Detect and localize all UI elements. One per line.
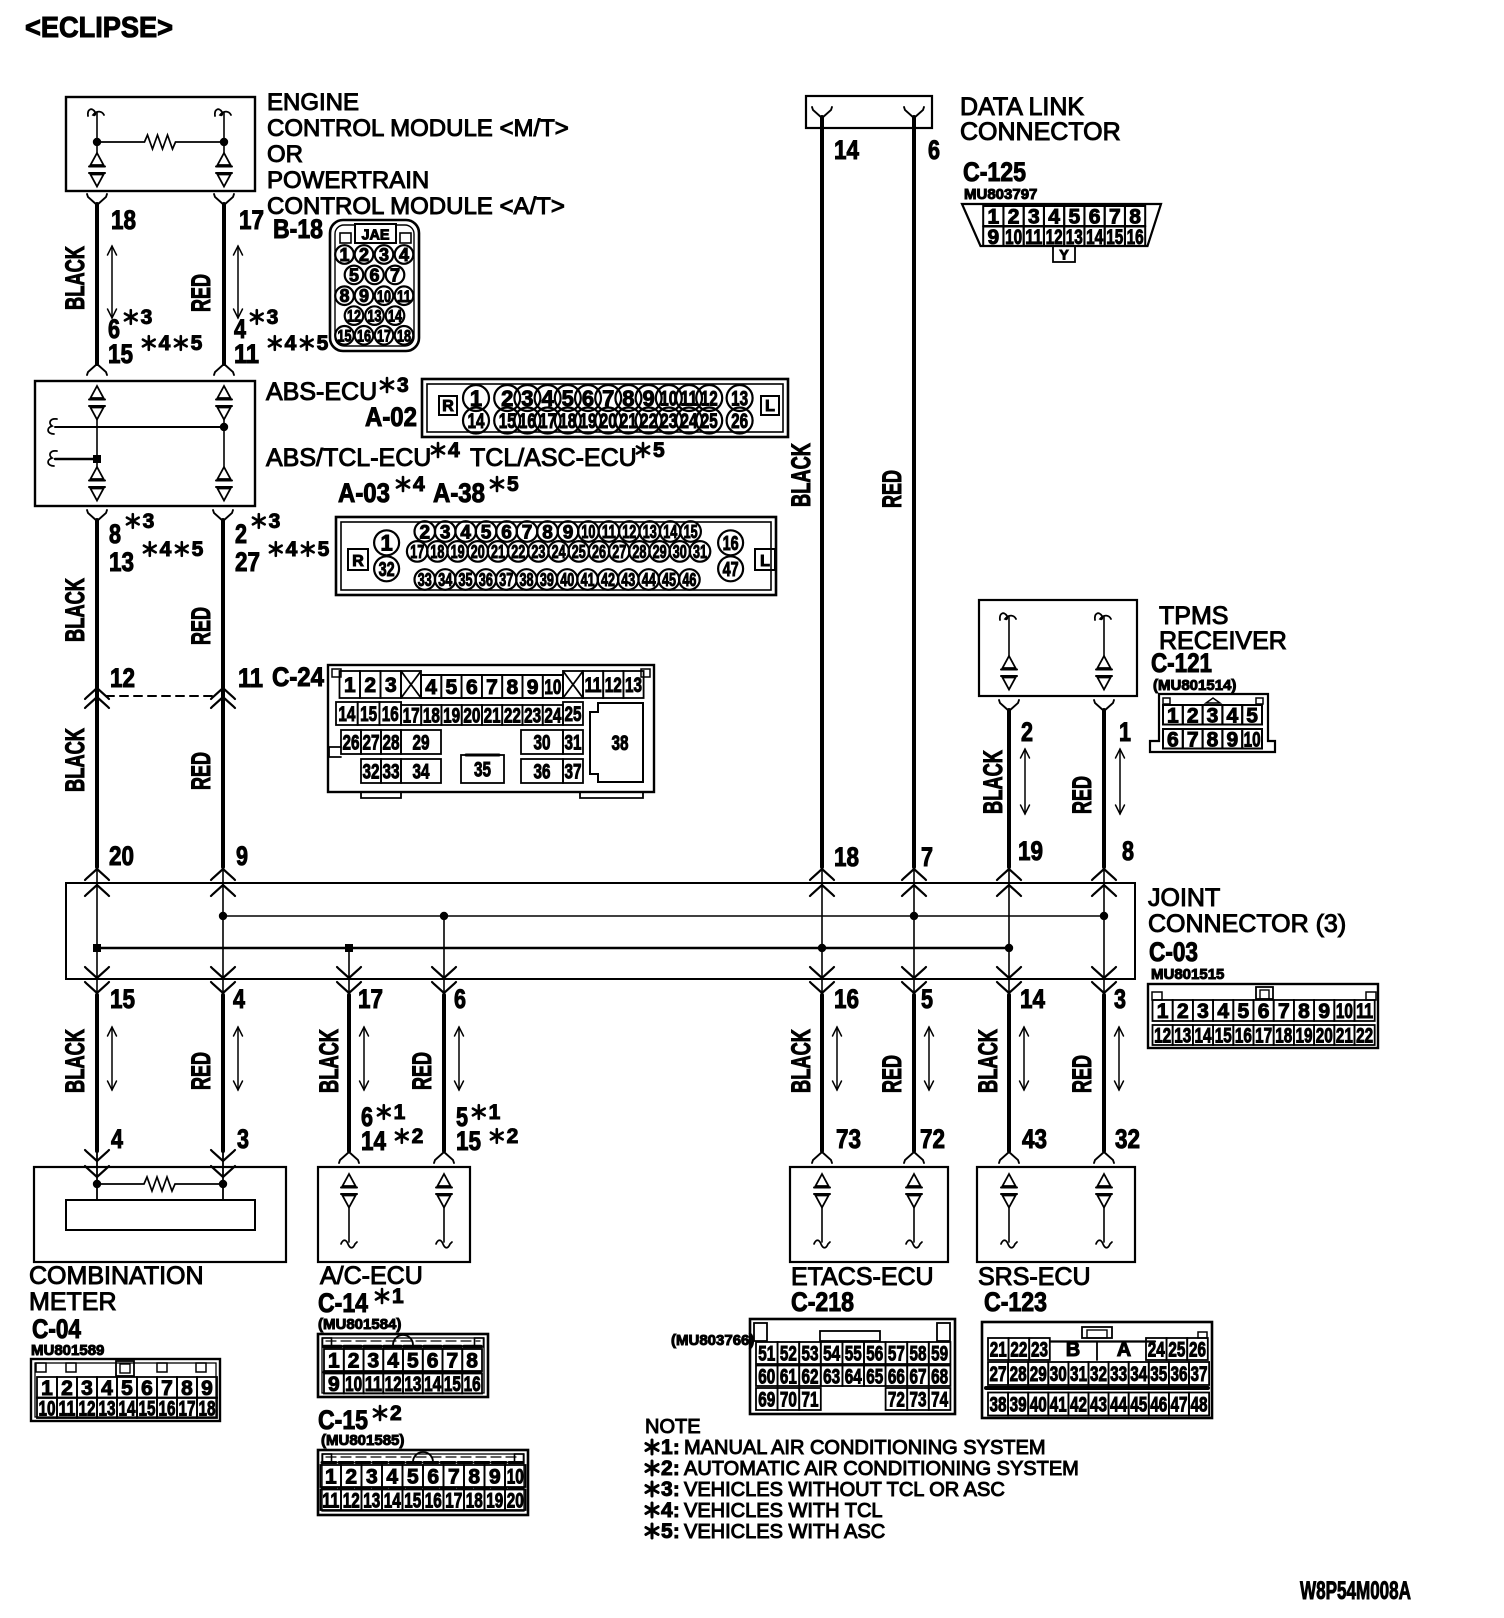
svg-text:RED: RED: [186, 607, 216, 645]
svg-text:10: 10: [581, 522, 595, 542]
wire BLACK TPMS pin 2 to joint pin 19: [999, 700, 1009, 711]
svg-text:9: 9: [527, 676, 539, 699]
svg-text:16: 16: [519, 410, 536, 433]
svg-text:46: 46: [682, 570, 696, 590]
connector C-14 pin layout: [318, 1334, 488, 1397]
connector A-02 pin layout: [422, 379, 788, 437]
svg-text:2: 2: [1187, 704, 1199, 727]
svg-text:21: 21: [491, 542, 505, 562]
svg-text:1: 1: [339, 245, 349, 265]
meter inner block: [66, 1200, 255, 1230]
svg-text:6: 6: [928, 135, 940, 165]
C-24 bottom tabs: [361, 792, 401, 798]
svg-text:39: 39: [1010, 1394, 1027, 1417]
arrow (right wire upper): [237, 246, 239, 318]
svg-text:19: 19: [580, 410, 597, 433]
svg-text:5: 5: [192, 538, 204, 561]
svg-text:37: 37: [499, 570, 513, 590]
svg-text:20: 20: [600, 410, 617, 433]
svg-text:METER: METER: [29, 1288, 117, 1316]
svg-text:MU801589: MU801589: [31, 1342, 104, 1359]
svg-text:36: 36: [534, 761, 551, 784]
svg-text:72: 72: [920, 1124, 945, 1154]
junction dot joint 1104: [1100, 912, 1108, 920]
svg-text:4: 4: [111, 1124, 123, 1154]
svg-text:(MU801514): (MU801514): [1153, 677, 1236, 694]
svg-text:14: 14: [663, 522, 677, 542]
svg-text:5: 5: [407, 1466, 419, 1489]
svg-text:C-04: C-04: [32, 1314, 81, 1344]
svg-text:12: 12: [622, 522, 636, 542]
joint wire x=1104: [1103, 869, 1105, 994]
A-02 pins 1-26: [463, 385, 489, 411]
svg-text:(MU803766): (MU803766): [671, 1332, 754, 1349]
svg-text:C-125: C-125: [963, 157, 1026, 187]
svg-text:1: 1: [661, 1436, 673, 1459]
C-15 pins 1-20: [321, 1465, 342, 1487]
C-24 X key cells: [401, 671, 421, 698]
svg-text:1: 1: [344, 674, 356, 697]
svg-text:20: 20: [507, 1489, 524, 1512]
wire fork into ETACS right: [904, 1152, 914, 1163]
svg-text:32: 32: [363, 761, 380, 784]
svg-text:6: 6: [454, 984, 466, 1014]
svg-text:15: 15: [108, 339, 133, 369]
ECM left terminal triangles: [96, 142, 98, 153]
svg-text:25: 25: [701, 410, 718, 433]
svg-text:15: 15: [1106, 226, 1123, 249]
svg-text:47: 47: [1171, 1394, 1188, 1417]
arrow (left wire upper): [111, 246, 113, 318]
svg-text:17: 17: [1255, 1025, 1272, 1048]
svg-text:35: 35: [474, 759, 491, 782]
svg-text:17: 17: [410, 542, 424, 562]
svg-text:5: 5: [407, 1350, 419, 1373]
svg-text:2: 2: [364, 674, 376, 697]
svg-text:2: 2: [359, 245, 369, 265]
ABS left pin bottom triangles: [96, 459, 98, 467]
C-14 bump: [393, 1335, 413, 1345]
svg-text:2: 2: [235, 519, 247, 549]
svg-text:BLACK: BLACK: [786, 443, 816, 507]
svg-text:44: 44: [642, 570, 656, 590]
svg-text:7: 7: [486, 676, 498, 699]
svg-text:24: 24: [552, 542, 566, 562]
svg-text:8: 8: [466, 1350, 478, 1373]
svg-text:3: 3: [379, 245, 389, 265]
svg-text:5: 5: [653, 439, 665, 462]
svg-text:2: 2: [348, 1350, 360, 1373]
svg-text:10: 10: [377, 287, 391, 306]
wire fork into ETACS left: [812, 1152, 822, 1163]
svg-text:3: 3: [366, 1466, 378, 1489]
svg-text:3: 3: [397, 374, 409, 397]
svg-text:15: 15: [1215, 1025, 1232, 1048]
wire BLACK DLC pin 14 to joint pin 18: [820, 117, 824, 867]
svg-text:11: 11: [585, 674, 602, 697]
svg-text:BLACK: BLACK: [973, 1029, 1003, 1093]
svg-text:7: 7: [390, 265, 400, 285]
svg-text:A: A: [1117, 1339, 1131, 1361]
C-24 left notch: [329, 747, 341, 757]
svg-text:13: 13: [1174, 1025, 1191, 1048]
ABS right pin top triangles: [218, 386, 231, 398]
svg-text:4: 4: [661, 1499, 673, 1522]
svg-text:12: 12: [79, 1397, 96, 1420]
svg-text::: :: [673, 1479, 680, 1501]
svg-text:42: 42: [601, 570, 615, 590]
junction square joint 97: [93, 944, 101, 952]
note *1: [651, 1440, 654, 1454]
ECM pin 18 terminal (curl+junction): [88, 109, 104, 116]
svg-text:18: 18: [430, 542, 444, 562]
svg-text:14: 14: [338, 703, 355, 726]
svg-text:60: 60: [758, 1365, 775, 1388]
svg-text:CONNECTOR (3): CONNECTOR (3): [1148, 910, 1346, 938]
svg-text:1: 1: [392, 1285, 404, 1308]
svg-text:C-14: C-14: [318, 1288, 368, 1318]
connector C-24 pin layout: [328, 665, 654, 792]
svg-text:9: 9: [1226, 728, 1238, 751]
svg-text:A-03: A-03: [338, 478, 390, 508]
svg-text:BLACK: BLACK: [978, 750, 1008, 814]
svg-text:13: 13: [363, 1489, 380, 1512]
svg-text:4: 4: [386, 1466, 398, 1489]
svg-text:35: 35: [1150, 1363, 1167, 1386]
svg-text:52: 52: [780, 1343, 797, 1366]
svg-text:44: 44: [1110, 1394, 1127, 1417]
svg-text:BLACK: BLACK: [60, 246, 90, 310]
svg-text:1: 1: [328, 1350, 340, 1373]
svg-text:22: 22: [1010, 1339, 1027, 1362]
svg-text:16: 16: [1235, 1025, 1252, 1048]
wire fork into A/C left: [339, 1152, 349, 1163]
svg-text:7: 7: [522, 522, 533, 543]
svg-text:BLACK: BLACK: [60, 728, 90, 792]
svg-text:25: 25: [572, 542, 586, 562]
svg-text:21: 21: [990, 1339, 1007, 1362]
svg-text:32: 32: [379, 559, 395, 581]
svg-text:RED: RED: [186, 1052, 216, 1090]
svg-text:B: B: [1066, 1339, 1080, 1361]
svg-text:RED: RED: [877, 1055, 907, 1093]
svg-text:5: 5: [191, 332, 203, 355]
C-14 top band: [324, 1345, 482, 1348]
connector C-04 pin layout: [31, 1359, 220, 1421]
svg-text:10: 10: [1005, 226, 1022, 249]
joint exit chevrons: [85, 967, 109, 978]
svg-text:3: 3: [237, 1124, 249, 1154]
joint wire x=444 (tap): [443, 916, 445, 994]
svg-text:16: 16: [723, 533, 739, 555]
svg-text:6: 6: [466, 676, 478, 699]
svg-text:11: 11: [1356, 1000, 1373, 1023]
C-24 cell 38: [590, 703, 643, 782]
connector C-03 pin layout: [1148, 984, 1378, 1048]
svg-text:47: 47: [723, 559, 739, 581]
svg-text:32: 32: [1090, 1363, 1107, 1386]
C-04 top tabs: [36, 1363, 46, 1372]
svg-text:26: 26: [343, 732, 360, 755]
svg-text:57: 57: [888, 1343, 905, 1366]
svg-text:37: 37: [565, 761, 582, 784]
svg-text:(MU801585): (MU801585): [321, 1432, 404, 1449]
svg-text:10: 10: [1244, 728, 1261, 751]
svg-text:27: 27: [235, 547, 260, 577]
C-15 top band: [322, 1461, 524, 1464]
C-218 top tabs: [754, 1323, 767, 1341]
junction dot joint 223: [219, 912, 227, 920]
svg-text:11: 11: [1025, 226, 1042, 249]
svg-text:8: 8: [339, 286, 349, 306]
svg-text::: :: [673, 1437, 680, 1459]
svg-text:34: 34: [413, 761, 430, 784]
svg-text:13: 13: [643, 522, 657, 542]
svg-text:ENGINE: ENGINE: [267, 89, 359, 116]
svg-text:TPMS: TPMS: [1159, 602, 1228, 630]
svg-text:26: 26: [592, 542, 606, 562]
svg-text:17: 17: [358, 984, 383, 1014]
svg-text:3: 3: [1197, 1000, 1209, 1023]
svg-text:10: 10: [39, 1397, 56, 1420]
svg-text:36: 36: [479, 570, 493, 590]
module box ETACS-ECU: [790, 1167, 948, 1262]
svg-text:14: 14: [1020, 984, 1045, 1014]
ETACS left pin triangles+ground squiggle: [816, 1174, 829, 1186]
svg-text:RED: RED: [1067, 776, 1097, 814]
meter entry chevrons right: [211, 1150, 235, 1161]
svg-text:8: 8: [1298, 1000, 1310, 1023]
svg-text:12: 12: [385, 1373, 402, 1396]
svg-text:34: 34: [438, 570, 452, 590]
svg-text:14: 14: [388, 307, 402, 326]
svg-text:48: 48: [1191, 1394, 1208, 1417]
module box U1 ENGINE/POWERTRAIN CONTROL MODULE: [66, 97, 255, 191]
C-03 pins 1-22: [1153, 1000, 1173, 1021]
C-15 bump: [413, 1452, 433, 1462]
svg-text:15: 15: [684, 522, 698, 542]
junction square joint 349: [345, 944, 353, 952]
resistor (meter termination): [97, 1177, 223, 1191]
svg-text:5: 5: [481, 522, 492, 543]
joint wire x=1009: [1008, 869, 1010, 994]
svg-text:17: 17: [179, 1397, 196, 1420]
svg-text:BLACK: BLACK: [314, 1029, 344, 1093]
svg-text:B-18: B-18: [273, 214, 323, 244]
svg-text:6: 6: [369, 265, 379, 285]
svg-text:35: 35: [459, 570, 473, 590]
svg-text:COMBINATION: COMBINATION: [29, 1262, 204, 1290]
svg-text:16: 16: [464, 1373, 481, 1396]
svg-text:28: 28: [632, 542, 646, 562]
svg-text:9: 9: [489, 1466, 501, 1489]
svg-text:33: 33: [1110, 1363, 1127, 1386]
svg-text:73: 73: [836, 1124, 861, 1154]
svg-text:28: 28: [1010, 1363, 1027, 1386]
wire fork into A/C right: [434, 1152, 444, 1163]
svg-text:2: 2: [420, 522, 431, 543]
svg-text:3: 3: [661, 1478, 673, 1501]
svg-text:ABS-ECU: ABS-ECU: [266, 378, 377, 406]
svg-text:1: 1: [489, 1101, 501, 1124]
svg-text:10: 10: [544, 676, 561, 699]
joint entry chevrons: [85, 869, 109, 880]
svg-text:20: 20: [1316, 1025, 1333, 1048]
SRS left pin triangles+ground squiggle: [1003, 1174, 1016, 1186]
svg-text:16: 16: [357, 326, 371, 345]
svg-text:2: 2: [661, 1457, 673, 1480]
svg-text:25: 25: [1168, 1339, 1185, 1362]
svg-text:L: L: [760, 553, 770, 570]
svg-text:6: 6: [501, 522, 512, 543]
svg-text:43: 43: [1022, 1124, 1047, 1154]
svg-text:14: 14: [361, 1126, 386, 1156]
svg-text:L: L: [765, 398, 775, 415]
svg-text:15: 15: [139, 1397, 156, 1420]
svg-text:5: 5: [507, 473, 519, 496]
dashed pairing line C-24: [106, 695, 214, 697]
A/C left pin triangles+ground squiggle: [343, 1174, 356, 1186]
svg-text:MANUAL AIR CONDITIONING SYSTEM: MANUAL AIR CONDITIONING SYSTEM: [684, 1437, 1046, 1459]
svg-text:6: 6: [1167, 728, 1179, 751]
svg-text:40: 40: [560, 570, 574, 590]
svg-text:4: 4: [233, 984, 245, 1014]
svg-text:6: 6: [1258, 1000, 1270, 1023]
svg-text:11: 11: [59, 1397, 76, 1420]
ECM pin 17 terminal (curl+junction): [215, 109, 231, 116]
svg-text:18: 18: [1275, 1025, 1292, 1048]
svg-text:26: 26: [731, 410, 748, 433]
svg-text:27: 27: [612, 542, 626, 562]
svg-text:12: 12: [347, 307, 361, 326]
svg-text:C-123: C-123: [984, 1287, 1047, 1317]
svg-text:40: 40: [1030, 1394, 1047, 1417]
svg-text:34: 34: [1130, 1363, 1147, 1386]
SRS right pin triangles+ground squiggle: [1098, 1174, 1111, 1186]
svg-text:6: 6: [427, 1350, 439, 1373]
C-125 Y key box: [1053, 246, 1075, 262]
svg-text::: :: [673, 1500, 680, 1522]
svg-text:MU801515: MU801515: [1151, 966, 1224, 983]
svg-text:4: 4: [413, 473, 425, 496]
C-123 top tab: [1082, 1327, 1112, 1338]
C-218 pins 51-74: [756, 1342, 778, 1364]
svg-text:7: 7: [447, 1350, 459, 1373]
svg-text:8: 8: [542, 522, 553, 543]
svg-text:15: 15: [444, 1373, 461, 1396]
svg-text:RED: RED: [186, 752, 216, 790]
joint wire x=223: [222, 869, 224, 994]
svg-text:RED: RED: [1067, 1055, 1097, 1093]
svg-text:53: 53: [802, 1343, 819, 1366]
connector C-218 pin layout: [750, 1319, 955, 1414]
wire fork into SRS left: [999, 1152, 1009, 1163]
svg-text:POWERTRAIN: POWERTRAIN: [267, 167, 429, 194]
svg-text:18: 18: [834, 842, 859, 872]
svg-text:22: 22: [1356, 1025, 1373, 1048]
svg-text:4: 4: [399, 245, 409, 265]
svg-text:3: 3: [143, 510, 155, 533]
C-123 separator band: [986, 1386, 1208, 1390]
ABS internal bus lower with hook: [48, 451, 57, 466]
wire BLACK ECM pin 18 to ABS pin 6/15: [87, 194, 97, 205]
svg-text:C-121: C-121: [1151, 648, 1212, 678]
junction dot joint 444: [440, 912, 448, 920]
svg-text:16: 16: [159, 1397, 176, 1420]
svg-text:9: 9: [236, 841, 248, 871]
svg-text:2: 2: [345, 1466, 357, 1489]
svg-text:45: 45: [662, 570, 676, 590]
svg-text:8: 8: [1207, 728, 1219, 751]
DLC wire fork right: [904, 107, 914, 118]
svg-text:5: 5: [661, 1520, 673, 1543]
svg-text:5: 5: [1246, 704, 1258, 727]
wire RED ECM pin 17 to ABS pin 4/11: [214, 194, 224, 205]
svg-text:2: 2: [412, 1125, 424, 1148]
svg-text:14: 14: [424, 1373, 441, 1396]
svg-text:38: 38: [520, 570, 534, 590]
svg-text:20: 20: [109, 841, 134, 871]
svg-text::: :: [673, 1458, 680, 1480]
joint wire x=914: [913, 869, 915, 994]
svg-text:AUTOMATIC AIR CONDITIONING SYS: AUTOMATIC AIR CONDITIONING SYSTEM: [684, 1458, 1079, 1480]
svg-text:C-03: C-03: [1149, 937, 1198, 967]
svg-text:16: 16: [425, 1489, 442, 1512]
svg-text:18: 18: [111, 205, 136, 235]
svg-text:41: 41: [1050, 1394, 1067, 1417]
svg-text:23: 23: [660, 410, 677, 433]
svg-text:12: 12: [343, 1489, 360, 1512]
svg-text:5: 5: [1238, 1000, 1250, 1023]
svg-text:BLACK: BLACK: [60, 1029, 90, 1093]
C-123 pins 38-48: [988, 1393, 1008, 1416]
svg-text:61: 61: [780, 1365, 797, 1388]
svg-text:30: 30: [673, 542, 687, 562]
svg-text:R: R: [352, 553, 364, 570]
svg-text:1: 1: [1157, 1000, 1169, 1023]
svg-text:8: 8: [507, 676, 519, 699]
svg-text:37: 37: [1191, 1363, 1208, 1386]
svg-text:30: 30: [1050, 1363, 1067, 1386]
svg-text:A-02: A-02: [365, 402, 417, 432]
svg-text:3: 3: [385, 674, 397, 697]
svg-text:1: 1: [394, 1101, 406, 1124]
svg-text:DATA LINK: DATA LINK: [960, 93, 1084, 121]
joint wire x=822: [821, 869, 823, 994]
svg-text:R: R: [442, 398, 454, 415]
svg-text:14: 14: [468, 410, 485, 433]
svg-text:29: 29: [413, 732, 430, 755]
A/C right pin triangles+ground squiggle: [438, 1174, 451, 1186]
svg-text:18: 18: [466, 1489, 483, 1512]
svg-text:38: 38: [990, 1394, 1007, 1417]
C-14 pins 1-16: [324, 1349, 344, 1371]
svg-text:13: 13: [99, 1397, 116, 1420]
svg-text:54: 54: [823, 1343, 840, 1366]
svg-text:29: 29: [1030, 1363, 1047, 1386]
TPMS right pin (curl+triangles): [1095, 613, 1111, 620]
svg-text:5: 5: [349, 265, 359, 285]
svg-text:10: 10: [507, 1466, 524, 1489]
svg-text:4: 4: [1217, 1000, 1229, 1023]
module box TPMS RECEIVER: [979, 600, 1137, 696]
note *2: [651, 1461, 654, 1475]
connector C-123 pin layout: [982, 1322, 1212, 1418]
svg-text:51: 51: [758, 1343, 775, 1366]
svg-text:46: 46: [1150, 1394, 1167, 1417]
svg-text:C-218: C-218: [791, 1287, 854, 1317]
svg-text:19: 19: [1018, 836, 1043, 866]
